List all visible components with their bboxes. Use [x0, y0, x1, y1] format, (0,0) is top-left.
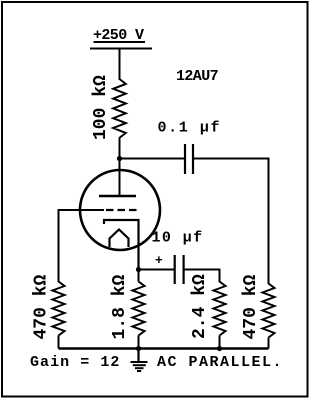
resistor 2.4 kΩ	[214, 282, 226, 349]
svg-text:0.1 µf: 0.1 µf	[158, 120, 222, 137]
plate electrode	[99, 195, 136, 198]
svg-text:100 kΩ: 100 kΩ	[91, 75, 111, 140]
svg-text:Gain = 12: Gain = 12	[30, 354, 120, 371]
label: +250 V supply	[93, 27, 145, 44]
wire: plate resistor to tube plate	[119, 138, 121, 196]
cathode electrode	[104, 220, 139, 270]
node: plate junction	[117, 156, 122, 161]
wire: ground rail	[59, 347, 269, 349]
triode 12AU7 envelope	[80, 170, 160, 250]
wire: coupling cap to output load	[194, 159, 269, 285]
wire: grid lead to grid resistor	[59, 210, 105, 282]
svg-text:12AU7: 12AU7	[176, 68, 218, 85]
svg-text:470 kΩ: 470 kΩ	[241, 274, 261, 339]
resistor 470 kΩ (grid resistor, left)	[53, 282, 65, 349]
ground	[131, 349, 148, 372]
grid electrode (dashed)	[106, 209, 137, 211]
wire: +250V supply bar	[90, 48, 152, 50]
svg-text:1.8 kΩ: 1.8 kΩ	[110, 274, 130, 339]
node: cathode junction	[136, 267, 141, 272]
resistor 1.8 kΩ (cathode resistor)	[133, 270, 145, 349]
svg-text:470 kΩ: 470 kΩ	[32, 274, 52, 339]
svg-text:10 µf: 10 µf	[152, 230, 204, 247]
resistor 100 kΩ (plate load)	[113, 79, 126, 138]
svg-text:AC PARALLEL.: AC PARALLEL.	[157, 354, 283, 371]
svg-text:2.4 kΩ: 2.4 kΩ	[190, 274, 210, 339]
resistor 470 kΩ (output load, right)	[263, 284, 275, 349]
svg-text:+: +	[155, 253, 163, 268]
wire: supply bar to plate resistor	[119, 49, 121, 81]
capacitor 10 µf (cathode bypass, polarized)	[175, 255, 184, 284]
heater filament	[110, 230, 129, 248]
wire: cathode node to bypass capacitor	[139, 269, 175, 271]
node: 2.4k junction	[217, 346, 222, 351]
capacitor 0.1 µf (coupling)	[185, 144, 193, 174]
wire: bypass cap to 2.4 kΩ resistor	[185, 270, 220, 283]
wire: plate node to coupling capacitor	[120, 158, 185, 160]
node: 1.8k / ground junction	[136, 346, 141, 351]
